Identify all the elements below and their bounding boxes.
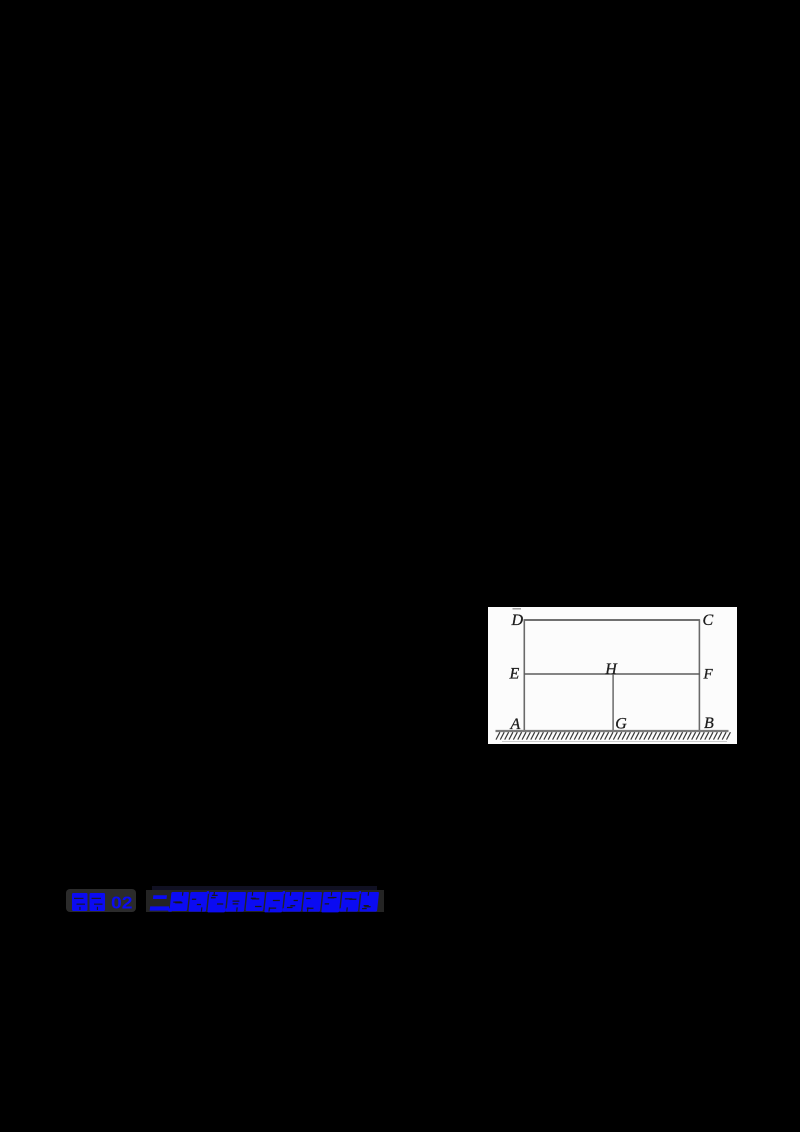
wire: top side DC [524,619,701,621]
badge text: 题型 02 [66,888,138,915]
ground line [496,730,729,732]
heading title: bold blue CJK-style text [146,886,390,916]
diagram panel (white figure background) [488,607,737,744]
artifact: faint ghost above D [513,608,522,610]
artifact: faint fuzz above title band [152,886,377,890]
svg-text:A: A [510,716,521,733]
svg-text:E: E [509,666,520,683]
faint artifact line near bottom [502,741,727,743]
svg-text:02: 02 [111,893,133,913]
ground hatching [496,732,730,739]
heading band (dark strip behind blue title) [146,890,384,912]
svg-text:H: H [604,661,618,678]
svg-text:D: D [511,612,524,629]
wire: middle horizontal EF [524,673,700,675]
svg-text:G: G [615,715,627,732]
svg-text:F: F [703,667,714,683]
svg-text:B: B [704,715,714,732]
wire: left side AD [523,620,525,732]
svg-text:C: C [703,612,714,629]
figure: rectangle ABCD with EF, HG and hatched ground [488,607,737,744]
wire: right side BC [698,620,700,732]
heading badge (rounded dark box behind 题型 02) [66,889,136,912]
wire: middle vertical HG [612,674,614,731]
